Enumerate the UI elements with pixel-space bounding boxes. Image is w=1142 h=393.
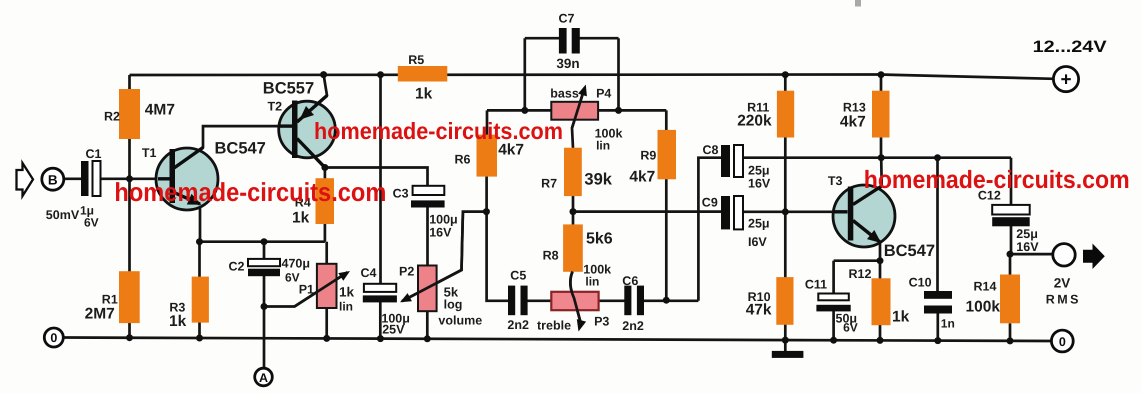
svg-text:homemade-circuits.com: homemade-circuits.com [314, 118, 563, 144]
svg-text:C9: C9 [702, 196, 718, 210]
svg-text:T2: T2 [268, 100, 283, 114]
svg-text:6V: 6V [843, 321, 858, 335]
svg-text:C8: C8 [703, 143, 719, 157]
svg-text:C5: C5 [510, 269, 526, 283]
svg-text:BC547: BC547 [884, 242, 935, 260]
svg-text:4k7: 4k7 [840, 114, 866, 131]
svg-text:lin: lin [596, 139, 610, 153]
svg-text:P4: P4 [596, 87, 611, 101]
svg-text:1k: 1k [339, 285, 355, 300]
svg-text:T3: T3 [828, 174, 843, 188]
svg-text:25μ: 25μ [748, 164, 770, 178]
svg-text:A: A [259, 371, 268, 385]
svg-text:25V: 25V [382, 323, 405, 337]
svg-text:C2: C2 [229, 260, 245, 274]
svg-text:R9: R9 [640, 149, 656, 163]
svg-text:lin: lin [585, 275, 599, 289]
svg-text:16V: 16V [748, 177, 771, 191]
svg-text:25μ: 25μ [1016, 227, 1038, 241]
svg-text:P2: P2 [399, 265, 414, 279]
svg-text:P1: P1 [299, 283, 314, 297]
svg-text:50mV: 50mV [46, 208, 80, 222]
svg-text:2n2: 2n2 [622, 319, 644, 333]
svg-text:R7: R7 [541, 177, 557, 191]
svg-text:BC557: BC557 [263, 80, 314, 98]
svg-text:6V: 6V [84, 216, 99, 230]
svg-text:C7: C7 [559, 12, 575, 26]
svg-text:C3: C3 [393, 187, 409, 201]
svg-text:treble: treble [537, 319, 571, 333]
svg-text:R8: R8 [543, 249, 559, 263]
svg-text:R12: R12 [849, 267, 872, 281]
svg-text:C11: C11 [805, 278, 827, 292]
svg-text:C10: C10 [909, 276, 932, 290]
svg-text:lin: lin [339, 300, 353, 314]
svg-text:homemade-circuits.com: homemade-circuits.com [864, 166, 1130, 194]
svg-text:B: B [48, 172, 58, 187]
svg-text:P3: P3 [594, 315, 609, 329]
svg-text:1k: 1k [292, 210, 310, 227]
svg-text:1k: 1k [415, 86, 433, 103]
svg-text:0: 0 [50, 331, 57, 345]
svg-text:R6: R6 [455, 153, 471, 167]
svg-text:R1: R1 [102, 293, 118, 307]
svg-text:4k7: 4k7 [498, 142, 524, 159]
svg-text:R2: R2 [104, 110, 120, 124]
svg-text:log: log [444, 298, 463, 312]
svg-text:2V: 2V [1054, 276, 1071, 291]
svg-text:100μ: 100μ [429, 213, 458, 227]
svg-text:2M7: 2M7 [85, 306, 115, 323]
svg-text:1n: 1n [941, 317, 955, 331]
svg-text:25μ: 25μ [748, 217, 770, 231]
svg-text:0: 0 [1059, 335, 1066, 349]
svg-text:4k7: 4k7 [629, 169, 655, 186]
svg-text:220k: 220k [737, 113, 772, 130]
svg-text:volume: volume [438, 314, 482, 328]
svg-text:1k: 1k [169, 313, 187, 330]
svg-text:1k: 1k [892, 309, 910, 326]
svg-text:C4: C4 [361, 266, 377, 280]
svg-text:2n2: 2n2 [507, 318, 529, 332]
svg-text:R5: R5 [408, 53, 424, 67]
svg-text:6V: 6V [285, 271, 300, 285]
svg-text:homemade-circuits.com: homemade-circuits.com [114, 177, 386, 207]
svg-text:47k: 47k [746, 302, 772, 319]
svg-text:C1: C1 [86, 147, 102, 161]
svg-text:C6: C6 [622, 274, 638, 288]
svg-text:39k: 39k [584, 171, 612, 189]
svg-text:470μ: 470μ [282, 257, 311, 271]
svg-text:+: + [1060, 70, 1071, 91]
svg-text:RMS: RMS [1046, 293, 1081, 307]
svg-text:12...24V: 12...24V [1033, 38, 1107, 56]
svg-text:16V: 16V [1016, 240, 1039, 254]
svg-text:100k: 100k [966, 299, 1001, 316]
svg-text:16V: 16V [429, 226, 452, 240]
svg-text:R13: R13 [843, 101, 866, 115]
svg-text:4M7: 4M7 [145, 102, 175, 119]
svg-text:BC547: BC547 [215, 140, 266, 158]
svg-text:5k6: 5k6 [586, 231, 613, 248]
svg-text:bass: bass [550, 87, 579, 101]
svg-text:R14: R14 [974, 280, 997, 294]
svg-text:T1: T1 [142, 146, 157, 160]
svg-text:I6V: I6V [748, 235, 767, 249]
svg-text:39n: 39n [556, 56, 579, 71]
